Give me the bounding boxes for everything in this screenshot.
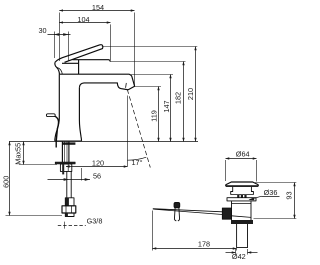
faucet foot bottom [55,140,82,142]
base gasket under counter [62,142,75,144]
dim 178 [153,211,237,251]
svg-text:Ø42: Ø42 [232,252,246,261]
dim 119 [135,87,162,142]
svg-text:178: 178 [198,240,210,249]
svg-text:120: 120 [92,159,104,168]
drain body bottom band [231,220,253,224]
svg-text:93: 93 [285,191,294,199]
svg-text:182: 182 [174,92,183,104]
pull rod knob [46,114,55,117]
mounting shank [61,142,63,162]
faucet handle base [55,60,79,74]
drain tailpiece [237,224,248,248]
stream vertical reference [127,96,129,167]
G3/8 leader [58,222,86,229]
dim 154 [59,11,134,87]
svg-text:17°: 17° [131,158,142,167]
shank tip [65,213,74,217]
faucet body inner right edge [79,88,81,141]
dim 210 [102,47,198,142]
dim 120 [66,166,128,168]
svg-text:600: 600 [2,176,11,188]
mounting nut [60,164,71,171]
pull rod [55,116,59,147]
drain lower body [232,201,252,220]
svg-text:30: 30 [38,26,46,35]
faucet body left edge [55,74,60,141]
supply pipe [66,171,68,197]
dim 93 [254,183,297,219]
faucet body cap [73,60,111,62]
faucet body and spout outline [59,74,134,90]
drain rod [153,209,223,215]
dim 147 [131,75,173,142]
dim 104 [59,23,110,61]
svg-text:56: 56 [93,171,101,180]
dim 600 [6,142,63,216]
mounting flange washer [55,162,75,164]
svg-text:Ø36: Ø36 [264,188,278,197]
drain plug neck [231,187,254,195]
stream dashed line [127,90,150,168]
drain plug cap [226,182,259,186]
dim Ø42 [226,249,258,255]
faucet lever handle [55,45,103,63]
countertop line [9,141,198,143]
svg-text:147: 147 [162,100,171,112]
dim Ø64 [226,159,257,182]
dim 30 [48,32,71,61]
connector block [65,198,74,206]
angle arc [127,157,146,160]
dim Max55 [19,142,57,165]
drain cage slots [231,194,254,196]
svg-text:G3/8: G3/8 [87,217,103,226]
dim 56 [48,168,91,181]
rod clevis [174,202,180,207]
svg-text:210: 210 [186,88,195,100]
svg-text:154: 154 [92,3,104,12]
aerator mark [125,83,128,88]
drain side nut [222,208,231,219]
svg-text:119: 119 [150,110,159,122]
G3/8 nut [62,206,76,213]
svg-text:Max55: Max55 [14,143,23,165]
dim 182 [110,62,185,142]
dim Ø36 leader [249,196,280,200]
svg-text:Ø64: Ø64 [236,149,250,158]
svg-text:104: 104 [77,15,89,24]
drain seat flange [227,198,256,201]
